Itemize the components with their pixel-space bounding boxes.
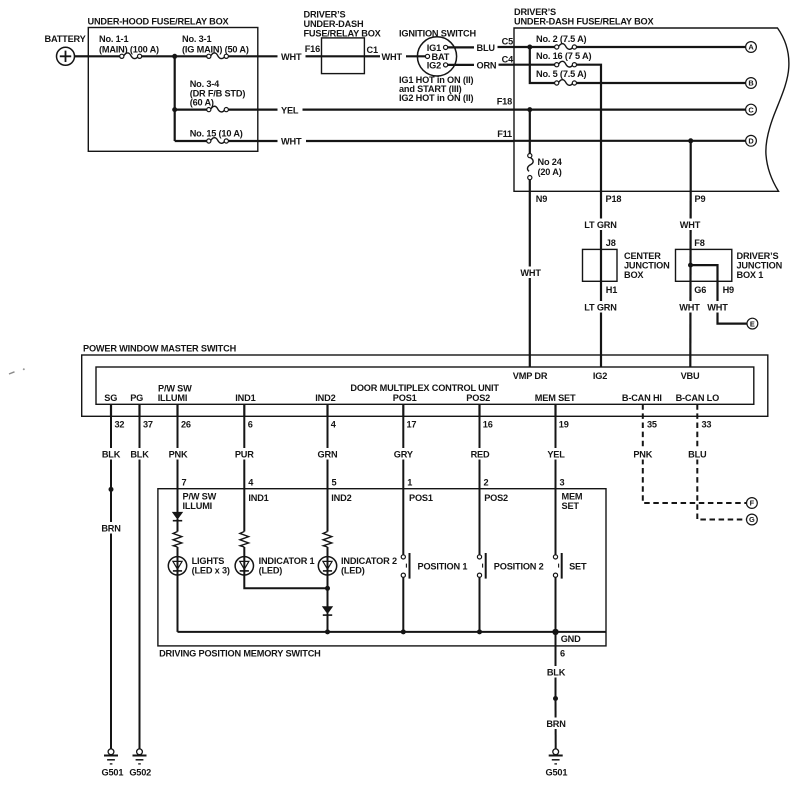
wire F11 branch down to P9 exit [690, 141, 692, 192]
wire IG1 output [448, 46, 474, 48]
svg-text:F8: F8 [694, 238, 704, 248]
wire fuse3-1 output exits box [228, 55, 277, 57]
ground G502 [133, 749, 147, 764]
svg-text:UNDER-DASH FUSE/RELAY BOX: UNDER-DASH FUSE/RELAY BOX [514, 17, 655, 27]
wire LED indicator1 to junction [244, 575, 327, 588]
svg-text:H1: H1 [606, 285, 617, 295]
svg-text:G501: G501 [546, 768, 568, 778]
wire MEM SET to switch [555, 489, 557, 555]
wire label WHT on N9 line [518, 267, 542, 279]
svg-text:FUSE/RELAY BOX: FUSE/RELAY BOX [304, 29, 382, 39]
svg-text:C4: C4 [502, 54, 514, 64]
stray scan dot [23, 368, 25, 370]
pin stub POS1 [402, 404, 404, 416]
svg-text:UNDER-HOOD FUSE/RELAY BOX: UNDER-HOOD FUSE/RELAY BOX [88, 17, 230, 27]
connector circle B [746, 78, 757, 89]
svg-text:DOOR MULTIPLEX CONTROL UNIT: DOOR MULTIPLEX CONTROL UNIT [350, 383, 499, 393]
junction dot IND1/IND2 [325, 586, 330, 591]
wire battery feed inside box [88, 55, 119, 57]
diode below indicators [323, 607, 332, 615]
wire resistor to LED indicator 2 [327, 547, 329, 575]
wire vertical branch inside under-hood box [174, 56, 176, 141]
svg-text:DRIVING POSITION MEMORY SWITCH: DRIVING POSITION MEMORY SWITCH [159, 648, 321, 658]
svg-text:F11: F11 [497, 129, 512, 139]
svg-text:VBU: VBU [681, 371, 700, 381]
svg-text:WHT: WHT [707, 303, 728, 313]
svg-text:3: 3 [560, 478, 565, 488]
wire switch POS1 to bus [402, 577, 404, 632]
svg-text:35: 35 [647, 420, 657, 430]
fuse No. 1-1 (MAIN) (100 A) [120, 53, 142, 59]
svg-text:4: 4 [248, 478, 254, 488]
svg-text:(20 A): (20 A) [538, 167, 562, 177]
wire label PNK [165, 448, 190, 460]
svg-text:BLK: BLK [130, 450, 149, 460]
svg-text:P/W SW: P/W SW [158, 383, 192, 393]
switch POSITION 1 [401, 553, 409, 579]
wire fuse No.24 to N9 exit [529, 180, 531, 192]
wire fuse No.16 output to P18 vertical [577, 65, 602, 192]
svg-text:32: 32 [115, 420, 125, 430]
svg-text:IND1: IND1 [248, 493, 268, 503]
pin stub IND1 [243, 404, 245, 416]
svg-text:DRIVER’S: DRIVER’S [737, 251, 779, 261]
wire YEL long run to under-dash box F18 [303, 108, 515, 110]
svg-text:26: 26 [181, 420, 191, 430]
wire through F16/C1 box [322, 55, 365, 57]
wire POS1 down [402, 416, 404, 488]
wire label GRN [315, 448, 340, 460]
wire label GRY [391, 448, 416, 460]
svg-text:G502: G502 [129, 768, 151, 778]
wire label BLK on SG [100, 448, 123, 460]
splice dot on GND wire [553, 696, 558, 701]
fuse No. 15 (10 A) [207, 138, 229, 144]
wire switch SET to bus [555, 577, 557, 632]
wire POS2 to switch [479, 489, 481, 555]
svg-text:INDICATOR 1: INDICATOR 1 [259, 556, 315, 566]
wire label WHT below G6 [678, 301, 702, 313]
connector circle A [746, 42, 757, 53]
svg-text:VMP DR: VMP DR [513, 371, 548, 381]
svg-text:GND: GND [561, 634, 581, 644]
svg-text:POS1: POS1 [409, 493, 433, 503]
svg-text:LT GRN: LT GRN [584, 220, 617, 230]
svg-text:5: 5 [332, 478, 337, 488]
svg-text:BOX 1: BOX 1 [737, 270, 764, 280]
resistor indicator 1 [240, 532, 249, 548]
connector circle F [747, 498, 758, 509]
wire label LT GRN lower [582, 301, 619, 313]
battery [57, 47, 75, 65]
svg-text:No. 3-1: No. 3-1 [182, 34, 211, 44]
svg-text:UNDER-DASH: UNDER-DASH [304, 19, 365, 29]
wire battery to under-hood box [75, 55, 89, 57]
wire fuse No.2 to connector A [577, 46, 746, 48]
wire label PNK on B-CAN HI [630, 448, 655, 460]
wire branch H9 to connector E [691, 265, 748, 324]
ignition switch [417, 37, 456, 76]
driver's junction box 1 [676, 249, 732, 281]
wire C1 to WHT [364, 55, 380, 57]
svg-text:(60 A): (60 A) [190, 98, 214, 108]
LED lights (LED x 3) [168, 557, 186, 575]
fuse No. 3-1 (IG MAIN) (50 A) [207, 53, 229, 59]
wire resistor to LED lights [177, 547, 179, 575]
svg-text:IND2: IND2 [331, 493, 351, 503]
svg-text:PNK: PNK [633, 450, 652, 460]
center junction box [583, 249, 618, 281]
wire IND1 down [243, 416, 245, 488]
wire label LT GRN upper [582, 219, 619, 231]
junction dot C5 feed [527, 45, 532, 50]
stray scan mark [9, 372, 15, 374]
svg-text:37: 37 [143, 420, 153, 430]
svg-text:A: A [748, 43, 754, 52]
fuse No. 5 (7.5 A) [555, 80, 577, 86]
svg-text:P9: P9 [695, 194, 706, 204]
wire PG down to ground [139, 416, 141, 748]
wire F18 branch down to fuse No.24 [529, 110, 531, 154]
svg-text:(LED x 3): (LED x 3) [192, 566, 230, 576]
wire label BRN on SG [100, 522, 123, 534]
svg-text:F16: F16 [305, 44, 320, 54]
svg-text:POS2: POS2 [484, 493, 508, 503]
svg-text:16: 16 [483, 420, 493, 430]
wire label RED [467, 448, 492, 460]
wire SG down to ground [110, 416, 112, 748]
svg-text:19: 19 [559, 420, 569, 430]
pin stub ILLUMI [176, 404, 178, 416]
svg-text:YEL: YEL [281, 105, 299, 115]
svg-text:G501: G501 [102, 768, 124, 778]
svg-text:BOX: BOX [624, 270, 644, 280]
svg-text:DRIVER’S: DRIVER’S [304, 10, 346, 20]
resistor indicator 2 [323, 532, 332, 548]
svg-text:GRY: GRY [394, 450, 413, 460]
wire BLU to C5 [498, 46, 515, 48]
svg-text:WHT: WHT [680, 220, 701, 230]
LED indicator 2 [318, 557, 336, 575]
svg-text:6: 6 [248, 420, 253, 430]
svg-text:POWER WINDOW MASTER SWITCH: POWER WINDOW MASTER SWITCH [83, 344, 237, 354]
wire POS2 down [479, 416, 481, 488]
wire B-CAN LO dashed to connector G [697, 404, 746, 519]
wire fuse3-4 output exits box (YEL) [228, 108, 277, 110]
svg-text:BLU: BLU [688, 450, 707, 460]
junction dot IND2 bus [325, 629, 330, 634]
svg-text:MEM SET: MEM SET [535, 393, 576, 403]
ground G501 (center) [549, 749, 563, 764]
svg-text:WHT: WHT [679, 303, 700, 313]
svg-text:7: 7 [182, 478, 187, 488]
svg-text:IG2: IG2 [427, 61, 441, 71]
wire fuse1-1 to junction [142, 55, 207, 57]
wire branch to fuse 3-4 [175, 108, 207, 110]
wire label BLU on B-CAN LO [686, 448, 709, 460]
junction dot F18 branch [527, 107, 532, 112]
pin stub POS2 [478, 404, 480, 416]
svg-text:E: E [750, 319, 755, 328]
fuse No. 3-4 (DR F/B STD) (60 A) [207, 106, 229, 112]
svg-text:IG2 HOT in ON (II): IG2 HOT in ON (II) [399, 93, 473, 103]
svg-text:JUNCTION: JUNCTION [624, 261, 670, 271]
svg-text:SG: SG [104, 393, 117, 403]
diode on illumination line [173, 512, 182, 520]
svg-text:LT GRN: LT GRN [584, 303, 617, 313]
svg-text:GRN: GRN [318, 450, 338, 460]
ground G501 (left) [104, 749, 118, 764]
svg-text:(LED): (LED) [341, 566, 365, 576]
svg-text:BRN: BRN [101, 524, 121, 534]
wire diode to resistor [177, 519, 179, 532]
wire POS1 to switch [402, 489, 404, 555]
svg-text:JUNCTION: JUNCTION [737, 261, 783, 271]
svg-text:INDICATOR 2: INDICATOR 2 [341, 556, 397, 566]
wire diode to bus [327, 613, 329, 632]
switch SET [553, 553, 561, 579]
resistor illumination [173, 532, 182, 548]
svg-text:IGNITION SWITCH: IGNITION SWITCH [399, 28, 476, 38]
ground bus inside memory switch [178, 631, 607, 633]
wire label PUR [232, 448, 257, 460]
wire F11 row to connector D [514, 140, 746, 142]
wire label BRN on GND wire [545, 718, 568, 730]
svg-text:J8: J8 [606, 238, 616, 248]
LED indicator 1 [235, 557, 253, 575]
connector circle D [746, 135, 757, 146]
svg-text:RED: RED [471, 450, 490, 460]
svg-text:WHT: WHT [281, 52, 302, 62]
wire P9 to VBU [689, 191, 692, 367]
driver's under-dash fuse/relay box outline with torn edge [514, 28, 789, 191]
svg-text:C1: C1 [367, 45, 378, 55]
junction dot branch 3-4 [172, 107, 177, 112]
svg-text:6: 6 [560, 648, 565, 658]
junction dot POS1 bus [401, 629, 406, 634]
svg-text:PUR: PUR [235, 450, 254, 460]
svg-text:WHT: WHT [281, 137, 302, 147]
wire N9 to VMP DR [529, 191, 531, 367]
svg-text:F18: F18 [497, 96, 512, 106]
svg-text:IG2: IG2 [593, 371, 607, 381]
wire P18 to IG2 [600, 191, 602, 367]
svg-text:POS1: POS1 [393, 393, 417, 403]
svg-text:B-CAN LO: B-CAN LO [676, 393, 720, 403]
svg-text:No. 15 (10 A): No. 15 (10 A) [190, 129, 243, 139]
wire ORN to C4 [499, 64, 515, 66]
wire splice to ground G501 [555, 699, 557, 749]
svg-text:(MAIN) (100 A): (MAIN) (100 A) [99, 45, 159, 55]
svg-text:BLU: BLU [477, 43, 496, 53]
wire IND2 to resistor [327, 489, 329, 532]
wire fuse15 output exits box (WHT) [228, 140, 277, 142]
wire GND exit [555, 632, 557, 699]
fuse No. 16 (7 5 A) [555, 61, 577, 67]
wire branch to fuse No. 15 [175, 140, 207, 142]
wire label BLK on GND wire [545, 666, 568, 678]
svg-text:SET: SET [569, 562, 587, 572]
wire F18 row to connector C [514, 108, 746, 110]
svg-text:WHT: WHT [382, 52, 403, 62]
junction dot MEM SET bus [552, 629, 558, 635]
wire fuse No.5 to connector B [577, 82, 746, 84]
svg-text:B-CAN HI: B-CAN HI [622, 393, 662, 403]
wire B-CAN HI dashed to connector F [643, 404, 747, 503]
svg-text:DRIVER’S: DRIVER’S [514, 7, 556, 17]
svg-text:ILLUMI: ILLUMI [158, 393, 188, 403]
svg-text:BRN: BRN [546, 719, 566, 729]
svg-text:No 24: No 24 [538, 157, 563, 167]
svg-text:4: 4 [331, 420, 337, 430]
svg-text:D: D [748, 137, 754, 146]
junction dot F11 branch to P9 [688, 138, 693, 143]
svg-text:P/W SW: P/W SW [183, 492, 217, 502]
wire C5 entry to fuse No.2 [514, 46, 555, 48]
wire IG2 output [448, 64, 474, 66]
under-hood fuse/relay box [88, 28, 257, 152]
power window master switch box [82, 355, 768, 416]
svg-text:BATTERY: BATTERY [45, 34, 86, 44]
svg-text:No. 2 (7.5 A): No. 2 (7.5 A) [536, 34, 587, 44]
wire WHT to ignition switch BAT [406, 55, 425, 57]
wire C4 entry to fuse No.16 [514, 64, 555, 66]
svg-text:IND2: IND2 [315, 393, 335, 403]
svg-text:H9: H9 [723, 285, 734, 295]
wire ILLUMI down to memory switch [177, 416, 179, 488]
connector circle C [746, 104, 757, 115]
wire ILLUMI to diode [177, 489, 179, 513]
svg-text:IND1: IND1 [235, 393, 255, 403]
wire label WHT below H9 [706, 301, 730, 313]
svg-text:N9: N9 [536, 194, 547, 204]
wire WHT to F16 box [306, 55, 322, 57]
svg-text:WHT: WHT [520, 268, 541, 278]
wire IND1 to resistor [243, 489, 245, 532]
wire LED indicator2 down through junction [327, 575, 329, 607]
wire label WHT on P9 line [678, 219, 702, 231]
pin stub MEM SET [554, 404, 556, 416]
wire IND2 down [327, 416, 329, 488]
svg-text:No. 1-1: No. 1-1 [99, 34, 128, 44]
wire label YEL [544, 448, 567, 460]
wire WHT long run to under-dash box F11 [306, 140, 514, 142]
svg-text:2: 2 [484, 478, 489, 488]
svg-text:(IG MAIN) (50 A): (IG MAIN) (50 A) [182, 45, 249, 55]
svg-text:YEL: YEL [547, 450, 565, 460]
svg-text:No. 16 (7 5 A): No. 16 (7 5 A) [536, 51, 591, 61]
svg-text:ORN: ORN [477, 61, 497, 71]
svg-text:G: G [749, 515, 755, 524]
svg-text:POS2: POS2 [466, 393, 490, 403]
svg-text:BLK: BLK [102, 450, 121, 460]
svg-text:POSITION 2: POSITION 2 [494, 562, 544, 572]
driving position memory switch box [158, 489, 606, 646]
svg-text:ILLUMI: ILLUMI [183, 501, 213, 511]
wire resistor to LED indicator 1 [243, 547, 245, 575]
svg-text:MEM: MEM [562, 492, 583, 502]
junction dot POS2 bus [477, 629, 482, 634]
svg-text:BLK: BLK [547, 668, 566, 678]
svg-text:No. 5 (7.5 A): No. 5 (7.5 A) [536, 69, 587, 79]
svg-text:33: 33 [702, 420, 712, 430]
splice dot on SG wire [109, 487, 114, 492]
svg-text:(LED): (LED) [259, 566, 283, 576]
svg-text:F: F [750, 499, 755, 508]
svg-text:POSITION 1: POSITION 1 [418, 562, 468, 572]
svg-text:SET: SET [562, 501, 580, 511]
wire vertical battery feed to fuse No.5 [530, 47, 555, 83]
svg-text:17: 17 [407, 420, 417, 430]
svg-text:1: 1 [407, 478, 412, 488]
svg-text:CENTER: CENTER [624, 251, 661, 261]
svg-text:G6: G6 [694, 285, 706, 295]
fuse No. 2 (7.5 A) [555, 44, 577, 50]
svg-text:B: B [748, 79, 753, 88]
connector circle G [747, 514, 758, 525]
svg-text:C: C [748, 105, 754, 114]
pin stub SG [110, 404, 112, 416]
svg-text:PG: PG [130, 393, 143, 403]
connector circle E [747, 318, 758, 329]
wire LED lights down to bus [177, 575, 179, 632]
door multiplex control unit box [96, 367, 754, 404]
driver's under-dash fuse/relay box (small F16/C1 pass-through) [322, 38, 365, 74]
svg-text:P18: P18 [606, 194, 622, 204]
pin stub PG [138, 404, 140, 416]
fuse No. 24 (20 A) vertical [528, 154, 534, 180]
pin stub IND2 [326, 404, 328, 416]
svg-text:PNK: PNK [169, 450, 188, 460]
wire switch POS2 to bus [479, 577, 481, 632]
wire label BLK on PG [128, 448, 151, 460]
wire MEM SET down [555, 416, 557, 488]
svg-text:LIGHTS: LIGHTS [192, 556, 225, 566]
svg-text:C5: C5 [502, 36, 513, 46]
junction dot inside driver's junction box 1 [688, 263, 693, 268]
junction dot main feed [172, 54, 177, 59]
switch POSITION 2 [477, 553, 485, 579]
